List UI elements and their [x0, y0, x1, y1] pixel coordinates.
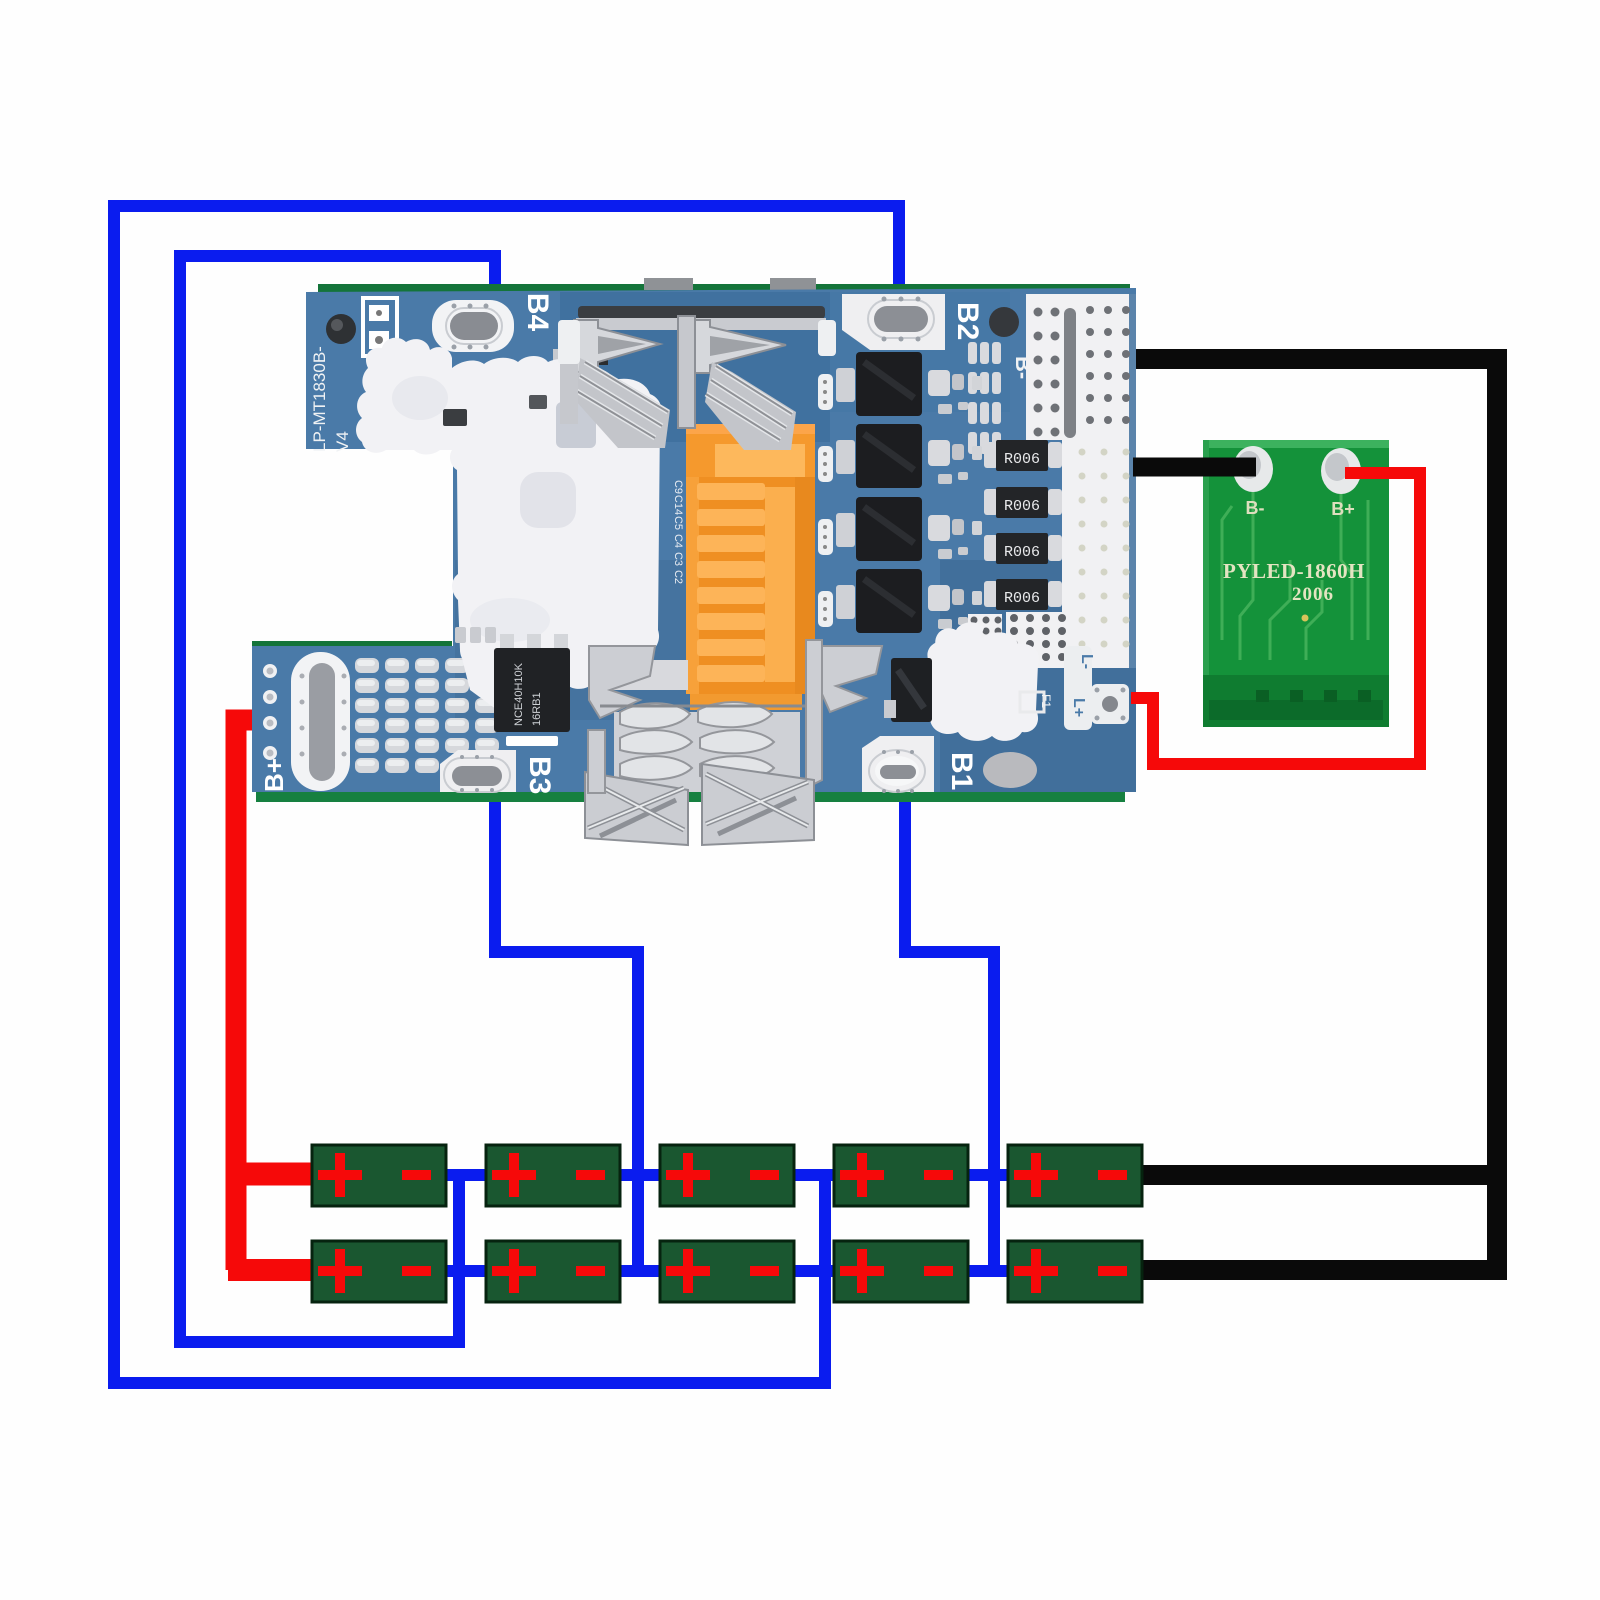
pad: B3 mounting pad [440, 750, 516, 792]
battery cell row2 #2 [486, 1241, 620, 1302]
pad: L+ output pad [1091, 684, 1129, 724]
clip: top slot bar [578, 306, 825, 319]
wire: black B- to LED board [1133, 458, 1256, 477]
transistor Q1 [836, 368, 855, 402]
pad: B2 mounting pad [842, 294, 945, 350]
resistor R006 #3 [984, 535, 998, 561]
battery cell row1 #2 [486, 1145, 620, 1206]
wire: blue sense B4 inner loop (PCB top to cell1/2 junction) [180, 256, 495, 1342]
battery cell row1 #5 [1008, 1145, 1142, 1206]
pad: B+ oblong pad [291, 652, 350, 791]
LED indicator board PYLED-1860H [1203, 440, 1389, 727]
clip: finger bundle left [575, 358, 670, 448]
resistor R006 #2 [984, 489, 998, 515]
wire: black P- main (PCB right edge to cell5 negatives) [1133, 359, 1497, 1270]
proto area top-right [1026, 294, 1136, 440]
svg-text:F1: F1 [1039, 694, 1053, 708]
pad: B4 oblong pad [432, 300, 514, 352]
clip: right vertical tab [806, 640, 822, 788]
component: switch box S1 [363, 298, 397, 356]
battery cell row2 #5 [1008, 1241, 1142, 1302]
solder blob grid on B+ tab [355, 658, 379, 673]
svg-text:L+: L+ [1070, 698, 1087, 717]
pad: B1 mounting pad [862, 736, 934, 792]
glue blob main [356, 338, 662, 689]
svg-text:B+: B+ [259, 758, 289, 792]
battery cell row2 #1 [312, 1241, 446, 1302]
svg-text:R006: R006 [1004, 590, 1040, 607]
connector: orange foot [690, 694, 802, 710]
wire: blue series links row2 [444, 1265, 1010, 1277]
fuse F1 [1020, 692, 1044, 712]
wire: blue sense B1 (PCB bottom to cell4/5 junction) [905, 788, 994, 1273]
svg-text:2006: 2006 [1292, 584, 1334, 605]
pcb blue body outline [252, 288, 1136, 792]
diode D1 [891, 658, 932, 722]
wire: blue sense B3 (PCB bottom to cell2/3 junction) [495, 788, 638, 1273]
svg-text:V4: V4 [333, 431, 352, 452]
svg-text:C14: C14 [672, 495, 684, 515]
clip: nickel strip arrows top [576, 318, 826, 330]
BMS PCB LP-MT1830B-V4 [252, 278, 1136, 845]
pad: fiducial hole top-left [326, 314, 356, 344]
pad: B+ tab plated holes [263, 664, 277, 678]
svg-text:B2: B2 [951, 302, 984, 340]
transistor Q2 [836, 440, 855, 474]
svg-text:C2: C2 [672, 570, 684, 584]
svg-text:NCE40H10K: NCE40H10K [513, 662, 525, 726]
wire: blue series links row1 [444, 1169, 1010, 1181]
gray oval blob [983, 752, 1037, 788]
svg-text:L-: L- [1078, 654, 1095, 669]
svg-text:PYLED-1860H: PYLED-1860H [1223, 559, 1365, 583]
wire: blue sense B2 outer loop (PCB top to cell3/4 junction) [114, 206, 899, 1383]
transistor Q3 [836, 513, 855, 547]
svg-text:C4: C4 [672, 534, 684, 548]
pad: L- / L+ tab [1064, 646, 1092, 730]
wire: red B+ main (PCB B+ tab to cell1 positives) [236, 720, 254, 1270]
svg-text:LP-MT1830B-: LP-MT1830B- [310, 346, 329, 452]
connector: orange holder upper block [686, 424, 815, 481]
battery cell row1 #1 [312, 1145, 446, 1206]
pad: fiducial hole near B2 [989, 307, 1019, 337]
resistor R006 #4 [984, 581, 998, 607]
battery cell row1 #4 [834, 1145, 968, 1206]
clip: bottom X plates [585, 772, 688, 845]
svg-text:R006: R006 [1004, 451, 1040, 468]
svg-text:R006: R006 [1004, 544, 1040, 561]
svg-text:B1: B1 [945, 752, 978, 790]
clip: left vertical tab [588, 730, 605, 793]
glue blob right [923, 632, 1039, 741]
clip: bottom heatsink springs [589, 646, 882, 792]
pcb green backing board [318, 284, 1130, 294]
pad: LED board B+ [1321, 448, 1361, 494]
svg-text:C3: C3 [672, 552, 684, 566]
battery cell row2 #4 [834, 1241, 968, 1302]
capacitor pads row under nce [455, 627, 466, 643]
battery cell row2 #3 [660, 1241, 794, 1302]
pad: LED board B- [1233, 446, 1273, 492]
wire: red L+ loop to LED board B+ [1131, 473, 1420, 764]
resistor R006 #1 [984, 442, 998, 468]
svg-text:R006: R006 [1004, 498, 1040, 515]
clip: finger bundle right [705, 362, 796, 450]
transistor NCE40H10K [500, 634, 514, 652]
svg-text:C5: C5 [672, 516, 684, 530]
svg-text:B3: B3 [523, 756, 556, 794]
connector: orange comb [686, 477, 815, 694]
battery cell row1 #3 [660, 1145, 794, 1206]
svg-text:B4: B4 [521, 293, 554, 332]
svg-text:B+: B+ [1331, 499, 1355, 519]
svg-text:C9: C9 [672, 480, 684, 494]
transistor Q4 [836, 585, 855, 619]
svg-text:16RB1: 16RB1 [531, 692, 543, 726]
svg-text:B-: B- [1246, 498, 1265, 518]
